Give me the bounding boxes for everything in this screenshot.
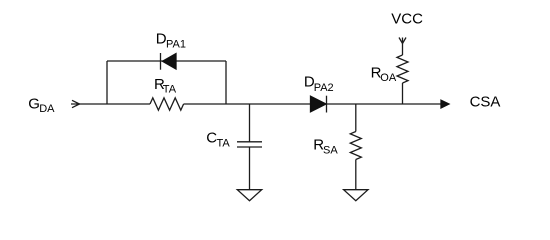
svg-text:OA: OA <box>380 72 397 84</box>
label D_PA1 <box>156 30 186 50</box>
diode D_PA2 <box>311 96 327 113</box>
resistor R_TA <box>150 98 184 110</box>
svg-text:PA2: PA2 <box>314 82 334 94</box>
input arrow <box>71 100 80 107</box>
wire left branch vertical <box>106 61 108 104</box>
wire top rail <box>107 60 226 62</box>
output arrow <box>441 100 449 108</box>
wire right branch vertical <box>225 61 227 104</box>
label C_TA <box>206 130 230 150</box>
ground (C_TA) <box>237 190 261 201</box>
svg-text:VCC: VCC <box>391 11 423 28</box>
label R_OA <box>371 65 397 85</box>
svg-text:CSA: CSA <box>470 93 501 110</box>
resistor R_SA <box>350 104 361 189</box>
node CSA label <box>470 93 501 110</box>
node G_DA label <box>28 95 55 115</box>
label R_SA <box>313 136 338 156</box>
capacitor C_TA <box>237 104 262 189</box>
resistor R_OA <box>397 43 408 105</box>
svg-text:TA: TA <box>163 83 177 95</box>
svg-text:TA: TA <box>217 137 231 149</box>
svg-text:PA1: PA1 <box>166 39 186 51</box>
svg-text:DA: DA <box>39 103 55 115</box>
label D_PA2 <box>304 74 334 94</box>
ground (R_SA) <box>344 190 368 201</box>
label R_TA <box>154 76 177 96</box>
label VCC <box>391 11 423 28</box>
svg-text:SA: SA <box>323 145 338 157</box>
VCC supply arrow <box>399 38 406 44</box>
diode D_PA1 <box>161 53 177 70</box>
wire main horizontal <box>79 103 150 105</box>
